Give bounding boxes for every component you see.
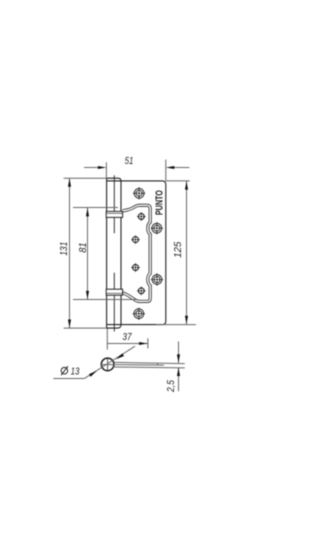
dimension 51	[84, 160, 189, 181]
hole H1 (countersunk, plate)	[133, 187, 145, 199]
svg-text:131: 131	[59, 242, 70, 256]
svg-text:2,5: 2,5	[166, 380, 177, 393]
svg-text:PUNTO: PUNTO	[153, 190, 165, 215]
knuckle band bottom	[106, 289, 122, 295]
dimension 37	[107, 329, 148, 350]
diameter 13 leader	[53, 346, 135, 378]
lower plate (rounded rectangle leaf)	[107, 181, 166, 325]
bottom view: barrel circle	[101, 358, 114, 371]
hole H2 (upper leaf)	[137, 212, 146, 221]
hole H6 (countersunk, plate)	[151, 273, 163, 285]
svg-text:125: 125	[173, 242, 184, 258]
svg-text:37: 37	[122, 332, 132, 343]
knuckle band top	[106, 211, 122, 217]
hole H5 (upper leaf)	[131, 263, 140, 272]
pin column outline	[107, 178, 121, 328]
upper leaf wavy edge (double line)	[123, 205, 151, 301]
hole H3 (countersunk, plate)	[151, 222, 163, 234]
dimension 131	[64, 178, 107, 328]
svg-text:81: 81	[78, 242, 89, 252]
hole H8 (countersunk, plate)	[133, 308, 145, 320]
dimension 2,5	[178, 341, 180, 391]
bottom view: barrel vertical centerline	[107, 358, 109, 372]
hole H4 (upper leaf)	[131, 235, 140, 244]
hole H7 (upper leaf)	[137, 286, 146, 295]
pin centerline	[113, 175, 115, 233]
svg-text:13: 13	[71, 367, 80, 378]
dimension 81	[73, 208, 137, 300]
svg-text:51: 51	[125, 156, 134, 167]
bottom view: leaf edge lines	[101, 362, 185, 368]
dimension 125	[156, 181, 196, 325]
